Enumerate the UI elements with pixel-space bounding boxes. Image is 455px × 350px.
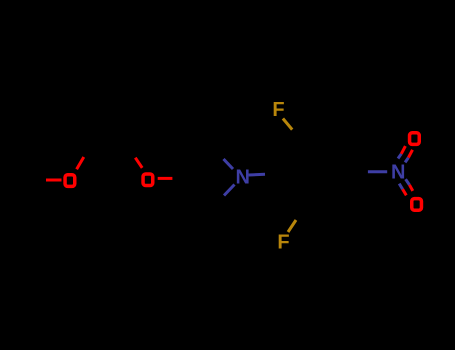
- svg-text:F: F: [277, 231, 289, 253]
- svg-text:N: N: [391, 162, 405, 184]
- svg-text:N: N: [235, 166, 249, 188]
- svg-text:F: F: [272, 99, 284, 121]
